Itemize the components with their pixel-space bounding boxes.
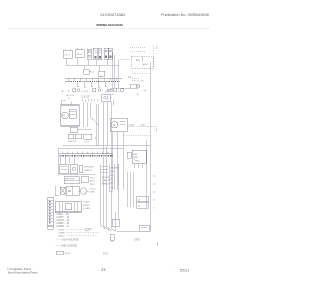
- svg-text:6: 6: [153, 207, 155, 209]
- wire drop t4: [73, 157, 75, 164]
- svg-text:L1 BLK: L1 BLK: [83, 202, 91, 204]
- defrost thermostat cluster: [68, 134, 82, 143]
- thermostat symbol row: [62, 88, 147, 92]
- wire bundle right mid 1: [127, 172, 129, 207]
- overload protector OL: [102, 94, 110, 101]
- terminal strip TB1: [65, 78, 122, 81]
- wire bundle right mid 2: [130, 172, 132, 207]
- dotted wire mid: [124, 134, 150, 136]
- label control: [89, 188, 95, 193]
- svg-text:23: 23: [101, 267, 106, 272]
- wire bundle w4: [111, 147, 115, 232]
- wire hook tb1 b: [84, 82, 86, 87]
- switch row box 1: [59, 165, 68, 174]
- wire riser e: [98, 104, 100, 146]
- wire right bus long: [150, 62, 152, 231]
- defrost timer DT: [132, 150, 146, 163]
- svg-text:,!, 5: ,!, 5: [67, 98, 71, 100]
- svg-text:GRD: GRD: [135, 240, 140, 242]
- svg-text:if: if: [68, 90, 70, 93]
- dotted drop: [117, 164, 119, 186]
- wire bundle w6: [118, 164, 120, 219]
- wire hook tb1 d: [98, 82, 100, 87]
- svg-text:10: 10: [153, 191, 156, 193]
- svg-text:3-ORN.....12: 3-ORN.....12: [56, 220, 70, 222]
- wire drop t1: [60, 157, 62, 164]
- wire bundle w5: [115, 212, 117, 231]
- svg-text:ADC: ADC: [136, 59, 141, 62]
- svg-text:8-BLU: 8-BLU: [58, 235, 65, 237]
- svg-text:(45): (45): [141, 124, 145, 126]
- svg-text:5 10 5 F: 5 10 5 F: [82, 97, 91, 99]
- terminal strip TB2: [59, 151, 113, 155]
- dashed wire with labels: [128, 124, 157, 126]
- wire riser a: [82, 102, 84, 127]
- svg-text:i: i: [111, 97, 112, 99]
- svg-text:COLD: COLD: [89, 188, 95, 190]
- svg-text:P9-2: P9-2: [90, 177, 95, 179]
- svg-text:J3: J3: [138, 206, 141, 208]
- svg-text:5-GRN......8: 5-GRN......8: [56, 226, 69, 228]
- dotted wire under board: [132, 73, 152, 75]
- wire horizontal y88: [110, 87, 138, 89]
- compressor COMP: [61, 105, 80, 126]
- svg-text:7-RED: 7-RED: [58, 232, 65, 234]
- svg-text:—— LINE VOLTAGE: —— LINE VOLTAGE: [56, 244, 78, 247]
- svg-text:4.5: 4.5: [128, 77, 132, 79]
- wire riser d: [95, 104, 97, 146]
- svg-text:6-YEL: 6-YEL: [58, 229, 65, 231]
- label heater column 2: [102, 177, 111, 185]
- wire hook tb1 e: [105, 82, 107, 87]
- svg-text:|--|: |--|: [119, 91, 122, 93]
- svg-text:ORN 12: ORN 12: [84, 170, 93, 172]
- defrost heater DH: [60, 175, 95, 184]
- door switch S1: [63, 49, 72, 59]
- wire drop ladder feed: [57, 149, 59, 177]
- light switch S4: [66, 186, 79, 195]
- wire H1 drop: [96, 60, 98, 66]
- evaporator fan motor M1: [110, 119, 127, 131]
- wire riser pair right: [113, 55, 115, 88]
- wire drop from timer: [108, 164, 110, 192]
- wire hook tb1 a: [77, 82, 79, 87]
- switch row box 3: [79, 165, 83, 173]
- wire hook tb1 c: [91, 82, 93, 87]
- temperature control CT: [78, 188, 89, 194]
- wire bundle w2: [103, 147, 109, 231]
- wire riser b: [87, 102, 89, 127]
- svg-text:12: 12: [153, 183, 156, 185]
- mullion heater H2: [98, 48, 102, 59]
- svg-text:S1 LT: S1 LT: [64, 55, 70, 57]
- svg-text:-: -: [173, 268, 174, 272]
- svg-text:Non-Illuminated Parts: Non-Illuminated Parts: [8, 271, 38, 275]
- svg-text:P9-4: P9-4: [90, 181, 95, 183]
- refrigerator lamp L2: [104, 48, 108, 59]
- svg-text:4-BRN.....10: 4-BRN.....10: [56, 223, 69, 225]
- svg-text:P1-4: P1-4: [90, 72, 95, 74]
- terminal board end cap: [48, 226, 53, 229]
- svg-text:J8: J8: [141, 80, 144, 82]
- dashed wire to board: [120, 59, 131, 61]
- svg-text:TMR: TMR: [133, 157, 138, 159]
- svg-text:T-ST: T-ST: [84, 142, 89, 144]
- label switch row: [84, 167, 94, 172]
- wire bundle w1: [100, 164, 106, 230]
- door switch S3: [55, 186, 65, 196]
- wire right riser j: [117, 132, 119, 190]
- wire riser f: [102, 102, 104, 146]
- dashed vertical net: [153, 45, 155, 70]
- control board U1 (dashed enclosure): [132, 56, 153, 68]
- dotted rule: [8, 27, 210, 29]
- refrigerator lamp L3: [109, 48, 113, 59]
- dotted leader 2: [58, 232, 99, 234]
- wire lamp bus: [66, 64, 119, 66]
- svg-text:BRD: BRD: [143, 64, 148, 66]
- svg-text:DEF HTR: DEF HTR: [65, 179, 75, 181]
- wire bus line 2: [58, 148, 123, 150]
- door switch S2: [75, 48, 84, 57]
- tick right margin top: [155, 46, 157, 49]
- svg-text:DEF: DEF: [133, 154, 138, 156]
- svg-text:RC 5,!5: RC 5,!5: [67, 95, 75, 97]
- wire bundle right mid 3: [133, 172, 135, 207]
- dotted leader 3: [58, 235, 96, 237]
- wire L1 drop: [88, 59, 90, 65]
- compressor junction box: [140, 225, 149, 231]
- mid leader marks: [85, 228, 92, 230]
- svg-text:(-..|..(-): (-..|..(-): [81, 91, 88, 93]
- small box right edge: [112, 219, 120, 226]
- wire bus line 1: [63, 145, 151, 147]
- svg-text:8: 8: [153, 199, 155, 201]
- label P5 pins: [110, 94, 140, 106]
- thermostat cluster 2: [84, 134, 92, 143]
- svg-text:14: 14: [153, 175, 156, 177]
- relay K2: [127, 152, 131, 158]
- wire drop n: [113, 164, 115, 190]
- label run cap row: [82, 97, 98, 102]
- wire riser: [118, 60, 120, 89]
- svg-text:WHT-BLK: WHT-BLK: [84, 167, 94, 169]
- freezer lamp L1: [87, 49, 91, 59]
- svg-text:WIRING DIAGRAM: WIRING DIAGRAM: [96, 23, 123, 27]
- svg-text:(123): (123): [129, 124, 134, 126]
- wire bundle w3: [107, 147, 112, 232]
- junction marks: [102, 166, 108, 172]
- label left of compressor: [61, 95, 75, 105]
- condenser fan lower box: [70, 127, 91, 132]
- svg-text:¶: ¶: [137, 94, 139, 96]
- dotted leader 1: [58, 229, 92, 231]
- label mid right row: [110, 168, 118, 173]
- wire riser g: [106, 102, 108, 146]
- wire riser h: [110, 102, 112, 146]
- dashed wire row A: [130, 46, 146, 48]
- wire bottom horizontal: [116, 230, 150, 232]
- wire drop t2: [64, 157, 66, 164]
- dashed wire row B: [130, 50, 146, 52]
- svg-text:S-72: S-72: [103, 254, 109, 256]
- svg-text:P9-6: P9-6: [90, 184, 95, 186]
- svg-text:N WHT: N WHT: [83, 205, 91, 207]
- connector block J2: [137, 196, 148, 208]
- ground plate: [110, 234, 114, 241]
- svg-text:DEF 5.5: DEF 5.5: [68, 141, 77, 143]
- svg-text:10-22: 10-22: [65, 253, 71, 255]
- wire riser pair left: [112, 52, 114, 88]
- label heater column 1: [90, 177, 95, 185]
- svg-text:5611: 5611: [180, 268, 190, 272]
- wire riser c: [90, 102, 92, 117]
- svg-text:2-WHT.....14: 2-WHT.....14: [56, 217, 69, 219]
- wire curve to right: [91, 117, 99, 125]
- svg-text:1-BLK.....16: 1-BLK.....16: [56, 214, 69, 216]
- relay K1: [131, 84, 140, 88]
- svg-text:j:H: j:H: [110, 94, 114, 96]
- control housing: [55, 202, 81, 212]
- svg-text:M: M: [62, 115, 64, 118]
- svg-text:M: M: [113, 124, 115, 127]
- wire L2 drop: [107, 59, 109, 65]
- label right pin column: [110, 175, 113, 194]
- wire right bus short: [146, 140, 148, 208]
- part number mark: [56, 251, 71, 255]
- svg-text:G GRN: G GRN: [83, 208, 91, 210]
- svg-text:—ii: —ii: [143, 89, 147, 92]
- svg-text:Publication No. 5995543698: Publication No. 5995543698: [161, 13, 209, 17]
- label housing: [83, 202, 91, 210]
- svg-text:S2 FZ: S2 FZ: [76, 54, 83, 56]
- connector J8: [132, 78, 144, 82]
- drain heater: [81, 176, 88, 183]
- wire DT pins: [135, 163, 143, 168]
- wire S1 drop: [65, 58, 67, 65]
- svg-text:CTRL: CTRL: [89, 192, 95, 194]
- tick right: [156, 242, 158, 246]
- mullion heater H1: [93, 48, 97, 59]
- wire S2 drop: [77, 58, 79, 66]
- svg-text:d: d: [62, 89, 64, 93]
- wire right riser k: [122, 132, 124, 190]
- svg-text:J2: J2: [138, 199, 141, 201]
- tick right margin: [155, 128, 157, 131]
- wire right riser i: [112, 131, 114, 190]
- wire drop t3: [69, 157, 71, 164]
- terminal board TB3 ladder: [48, 197, 54, 225]
- connector P2: [99, 65, 105, 78]
- svg-text:– – – LOW VOLTAGE: – – – LOW VOLTAGE: [56, 239, 79, 242]
- switch row box 2: [70, 165, 78, 174]
- svg-text:GLHS267ZAB2: GLHS267ZAB2: [100, 13, 125, 17]
- connector P1: [84, 65, 95, 74]
